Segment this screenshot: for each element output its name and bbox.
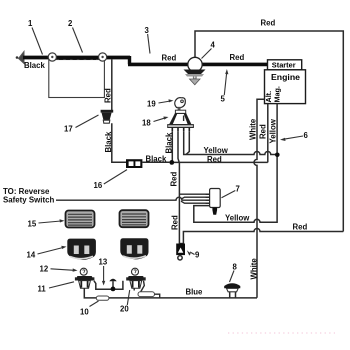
svg-text:17: 17 [64, 125, 73, 134]
svg-text:8: 8 [233, 263, 238, 272]
svg-text:19: 19 [147, 100, 156, 109]
callout 18 [142, 117, 169, 128]
svg-text:Red: Red [293, 223, 308, 232]
svg-text:Red: Red [261, 19, 276, 28]
wire: yellow from engine Mag down, through junction, to PTO switch [194, 104, 277, 223]
wire: thick red cable to starter [128, 63, 268, 67]
svg-text:Red: Red [104, 88, 113, 103]
callout 14 [27, 246, 67, 260]
svg-text:Black: Black [24, 61, 45, 70]
svg-text:White: White [248, 118, 257, 140]
callout 9 [187, 250, 200, 259]
svg-text:7: 7 [236, 185, 240, 194]
wire: yellow from key switch pin 3 to magneto junction [184, 131, 278, 154]
callout 20 [120, 290, 130, 314]
svg-text:12: 12 [40, 265, 49, 274]
starter solenoid (item 4) [188, 57, 202, 71]
svg-text:Engine: Engine [271, 72, 300, 82]
wire: red from junction down to light fuse 9 [178, 163, 180, 244]
wire: branch to PTO switch pin 1 [179, 193, 209, 195]
callout 6 [280, 131, 309, 141]
lamp ground (mushroom) [109, 279, 116, 287]
callout 13 [99, 258, 108, 286]
wire: right socket through connector 20 to blue run [141, 281, 145, 292]
svg-text:Mag.: Mag. [273, 86, 282, 102]
svg-text:Starter: Starter [272, 61, 296, 70]
callout 16 [94, 170, 128, 190]
callout 15 [28, 219, 65, 228]
wire: red from engine down to key-switch red feed [267, 104, 269, 163]
lamp bulb right [132, 268, 139, 275]
wire: key switch pin 4 drop [186, 131, 189, 154]
wire: red from battery positive down to horn [111, 59, 113, 110]
right socket bottom stub [133, 288, 135, 290]
callout 4 [202, 41, 216, 59]
callout 10 [80, 301, 99, 317]
battery cell dashes [59, 57, 96, 60]
callout 2 [68, 19, 83, 53]
engine box [264, 70, 306, 104]
wire: fan-in to PTO switch pin 4 [181, 201, 210, 203]
callout 1 [28, 19, 43, 55]
svg-text:6: 6 [304, 131, 309, 140]
wire: black from key switch pin 1 to junction [171, 131, 173, 162]
callout 8 [230, 263, 238, 283]
callout 3 [145, 26, 151, 54]
headlight housing (item 14, right) [120, 238, 148, 259]
svg-text:10: 10 [80, 308, 89, 317]
wire: blue run to oil switch and white drop [109, 297, 257, 299]
battery B1 outline [49, 60, 105, 98]
PTO / light switch (item 7) [206, 189, 221, 215]
svg-text:13: 13 [99, 258, 108, 267]
wire: red horizontal from junction to engine red drop [172, 161, 268, 163]
svg-text:Red: Red [258, 124, 267, 139]
label: TO: Reverse Safety Switch [3, 187, 54, 205]
wire: to reverse safety switch [56, 197, 210, 200]
light fuse holder (item 9) [176, 244, 185, 261]
wire: left socket down to blue run [84, 288, 96, 298]
svg-text:5: 5 [221, 95, 226, 104]
svg-text:16: 16 [94, 181, 103, 190]
svg-text:2: 2 [68, 19, 73, 28]
solenoid mount / ground [184, 70, 206, 85]
svg-text:White: White [249, 258, 258, 280]
oil/safety switch (item 8) [224, 283, 240, 298]
callout 7 [222, 185, 240, 198]
junction dot (lamp link) [111, 287, 116, 292]
wire: lamp to lamp link [94, 281, 123, 289]
svg-text:Black: Black [146, 155, 167, 164]
callout 5 [221, 69, 229, 104]
horn (item 17) [101, 110, 114, 123]
starter box [268, 60, 302, 70]
headlight lens (item 15, left) [66, 211, 95, 228]
lamp socket left (item 11) [75, 276, 94, 288]
key switch (item 18) with key (item 19) [175, 98, 186, 111]
wire: thick black battery cable (upper run) [23, 56, 130, 60]
svg-text:Black: Black [165, 132, 174, 153]
wire: fan-in to PTO switch pin 3 [181, 197, 210, 199]
svg-text:Red: Red [230, 53, 245, 62]
callout 11 [38, 282, 75, 294]
faint pink dotted line (scan artifact) [228, 332, 335, 334]
fuse (item 16) [126, 159, 142, 168]
inline fuse link (item 10) [96, 296, 109, 300]
junction dot (key switch) [169, 160, 174, 165]
svg-text:Red: Red [171, 215, 180, 230]
wire: black from horn down to fuse [112, 123, 126, 162]
headlight lens (item 15, right) [120, 210, 149, 227]
svg-text:18: 18 [142, 119, 151, 128]
wire: thick cable step down [128, 56, 131, 64]
callout 17 [64, 115, 99, 134]
svg-text:Red: Red [162, 54, 177, 63]
callout 19 [147, 99, 174, 108]
svg-text:11: 11 [38, 285, 47, 294]
wire: black fuse to junction [142, 161, 170, 163]
svg-text:Yellow: Yellow [268, 118, 277, 143]
svg-text:Red: Red [170, 172, 179, 187]
wire: white from engine Alt terminal down to lamp circuit [254, 99, 264, 297]
svg-text:15: 15 [28, 220, 37, 229]
lamp bulb left (item 12) [80, 268, 87, 275]
callout 12 [40, 265, 78, 274]
svg-text:Yellow: Yellow [225, 213, 250, 222]
svg-text:14: 14 [27, 251, 36, 260]
headlight housing (item 14, left) [67, 239, 96, 260]
svg-text:9: 9 [195, 251, 200, 260]
wire: red horizontal at y=230.6 with hop, down to fuse 9 [183, 229, 343, 244]
battery positive terminal [99, 53, 107, 61]
battery negative terminal [48, 53, 56, 61]
battery cable connector (item 1) [16, 52, 24, 64]
svg-text:3: 3 [145, 26, 150, 35]
svg-text:1: 1 [28, 19, 33, 28]
svg-text:20: 20 [120, 305, 129, 314]
svg-text:Blue: Blue [186, 288, 204, 297]
lamp socket right (item 20) [126, 276, 146, 288]
junction dot (magneto yellow) [275, 153, 280, 158]
wire: red loop from solenoid top over to right side and down [195, 31, 343, 232]
svg-text:Safety Switch: Safety Switch [3, 196, 54, 205]
svg-text:4: 4 [211, 41, 216, 50]
svg-text:Black: Black [104, 131, 113, 152]
wire: from key switch pin 2 down to junction area [178, 131, 179, 163]
